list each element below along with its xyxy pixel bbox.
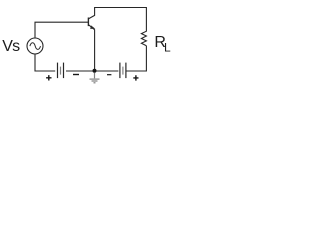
- svg-text:L: L: [164, 40, 171, 54]
- svg-text:Vs: Vs: [2, 38, 20, 55]
